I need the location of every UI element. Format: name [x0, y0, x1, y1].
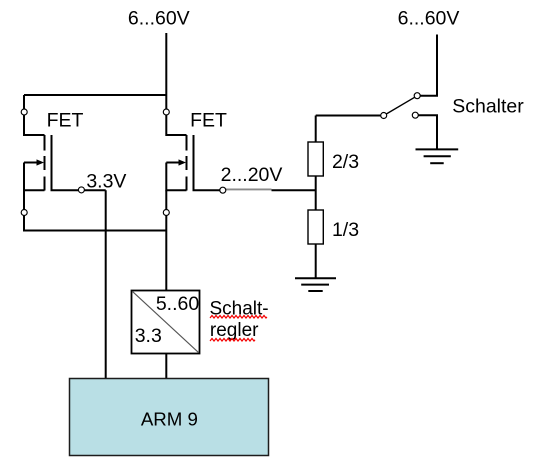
svg-text:3.3: 3.3 — [135, 325, 162, 347]
svg-text:6...60V: 6...60V — [398, 7, 460, 29]
svg-text:1/3: 1/3 — [332, 219, 359, 241]
svg-text:6...60V: 6...60V — [128, 7, 190, 29]
svg-text:2/3: 2/3 — [332, 151, 359, 173]
svg-text:Schalter: Schalter — [452, 96, 524, 118]
svg-text:2...20V: 2...20V — [221, 164, 283, 186]
svg-text:5..60: 5..60 — [156, 293, 200, 315]
svg-text:ARM 9: ARM 9 — [141, 409, 198, 430]
svg-text:FET: FET — [190, 109, 227, 131]
svg-text:3.3V: 3.3V — [86, 170, 126, 192]
svg-text:FET: FET — [47, 109, 84, 131]
